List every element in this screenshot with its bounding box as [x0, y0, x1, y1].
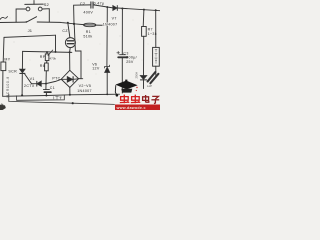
switch S2 left contact: [26, 7, 30, 11]
node J1 contact dot: [26, 21, 28, 23]
switch S2 right contact: [38, 7, 42, 11]
thyristor V1 SCR: [20, 69, 25, 73]
frame border bottom: [9, 94, 115, 104]
bottom box inner marks: [54, 96, 62, 99]
switch S2 left riser: [16, 9, 26, 22]
socket CZ inner bars: [67, 40, 73, 42]
wire corner down to mid rail: [55, 35, 57, 52]
svg-text:C2: C2: [80, 1, 86, 6]
svg-text:J1: J1: [28, 28, 33, 33]
AC tilde mark: [0, 17, 8, 20]
relay J column: [155, 10, 157, 47]
capacitor C1 plates: [43, 89, 49, 91]
svg-text:C1: C1: [50, 86, 55, 90]
watermark char chong1: [120, 95, 129, 104]
svg-text:S2: S2: [44, 2, 50, 7]
node junction bridge col: [69, 51, 71, 53]
svg-text:470k: 470k: [50, 56, 57, 60]
diode V7: [113, 6, 117, 11]
svg-text:MY: MY: [4, 58, 10, 62]
svg-text:400V: 400V: [83, 10, 93, 14]
svg-text:200μ/: 200μ/: [126, 56, 137, 60]
svg-text:PTC: PTC: [52, 76, 60, 80]
node vertical C2R1 to zener: [106, 7, 108, 66]
capacitor C2 plates: [90, 2, 92, 8]
wire R1 to node: [96, 24, 107, 26]
svg-text:1N4007: 1N4007: [103, 23, 118, 27]
svg-text:V7: V7: [112, 16, 117, 20]
capacitor C3 plates: [120, 54, 126, 56]
svg-text:0.47μ: 0.47μ: [94, 1, 105, 5]
wire mid rail: [23, 51, 72, 52]
wire top rail right: [117, 8, 160, 11]
watermark char chong2: [131, 95, 140, 104]
svg-text:R1: R1: [86, 30, 91, 34]
socket CZ circle: [65, 38, 75, 48]
rail junction C1: [45, 95, 47, 97]
socket CZ to bridge: [69, 48, 72, 71]
bridge right stub: [79, 78, 83, 80]
node A junction dot CZ: [67, 22, 69, 24]
rail junction SCR: [21, 94, 23, 96]
potentiometer RP: [46, 52, 48, 54]
node junction relay top: [155, 9, 157, 11]
svg-text:250A: 250A: [135, 72, 139, 79]
SCR gate diagonal: [25, 74, 32, 84]
capacitor C3 column: [121, 9, 123, 55]
scan speckles: [10, 12, 149, 91]
RP wiper arrow: [48, 50, 53, 55]
capacitor C1 riser: [45, 84, 47, 90]
wire main line left: [0, 21, 26, 23]
relay box inner text marks: [155, 50, 157, 64]
C3 plus sign: [117, 51, 120, 54]
node junction gate/C1: [45, 83, 47, 85]
switch S2 bar: [25, 3, 44, 5]
wire top rail to diode V7: [94, 5, 113, 8]
PTC wire to bridge: [46, 79, 61, 83]
zener V6: [105, 65, 110, 68]
watermark cap board: [115, 81, 137, 90]
svg-text:2CTX: 2CTX: [24, 84, 35, 88]
resistor R7 box: [142, 27, 147, 37]
node junction C3 top: [121, 8, 123, 10]
bottom box: [17, 95, 65, 100]
svg-text:12V: 12V: [92, 67, 100, 71]
bridge inner diode: [62, 78, 68, 80]
switch S2 right riser: [42, 9, 49, 22]
diode V8: [140, 76, 146, 80]
svg-text:SCR: SCR: [8, 70, 17, 74]
watermark red speckles: [136, 87, 137, 88]
wire into R1: [74, 23, 84, 26]
wire after J1: [37, 22, 74, 24]
bridge V2-V5 diamond: [61, 70, 78, 87]
watermark char dian: [143, 95, 149, 102]
varistor MY box: [1, 62, 6, 71]
capacitor C2 riser: [74, 5, 91, 24]
corner dark blob: [0, 105, 6, 110]
relay J coil box: [153, 47, 160, 66]
watermark cap head: [121, 89, 132, 93]
bridge bottom to rail: [69, 87, 71, 94]
svg-text:V2~V5: V2~V5: [79, 84, 92, 88]
zener to rail: [106, 73, 108, 95]
svg-text:R7: R7: [148, 28, 153, 32]
svg-text:V1: V1: [30, 77, 35, 81]
watermark tassel: [115, 85, 116, 94]
resistor R1 lozenge: [84, 23, 96, 27]
watermark char zi: [151, 96, 159, 103]
wire horizontal upper left: [4, 35, 56, 37]
watermark cap button: [125, 80, 127, 81]
socket CZ riser: [68, 23, 70, 38]
svg-text:L•iP: L•iP: [147, 84, 152, 88]
svg-text:MCR100-8: MCR100-8: [6, 76, 10, 97]
svg-text:R6: R6: [40, 64, 45, 68]
svg-text:RP: RP: [40, 55, 46, 59]
rail junction zener: [106, 94, 108, 96]
resistor R7 column: [142, 10, 145, 27]
node junction corner col: [55, 51, 57, 53]
svg-text:25V: 25V: [126, 60, 134, 64]
node junction R1/C2 right: [106, 6, 108, 8]
resistor R6 box: [45, 63, 49, 71]
rail junction bridge: [69, 94, 71, 96]
svg-text:1~3k: 1~3k: [148, 32, 157, 36]
node junction R7 top: [143, 9, 145, 11]
left column from corner: [2, 37, 5, 62]
svg-text:1N4007: 1N4007: [77, 89, 92, 93]
node junction RP top: [46, 51, 48, 53]
bold diagonal strokes: [148, 72, 156, 81]
switch S2 plunger: [33, 1, 35, 5]
svg-text:510k: 510k: [83, 34, 92, 38]
switch J1 blade: [27, 17, 37, 22]
wire RP to R6: [46, 61, 49, 63]
bottom rail: [3, 94, 120, 96]
svg-text:www.dawode.c: www.dawode.c: [116, 106, 146, 110]
node dot C2 branch: [73, 23, 75, 25]
watermark red band: [115, 105, 160, 111]
svg-text:CZ: CZ: [62, 29, 68, 33]
diode V1 gate: [32, 83, 37, 85]
frame dot: [72, 102, 74, 104]
SCR anode drop: [21, 51, 23, 69]
wire bridge DC riser: [74, 24, 81, 78]
